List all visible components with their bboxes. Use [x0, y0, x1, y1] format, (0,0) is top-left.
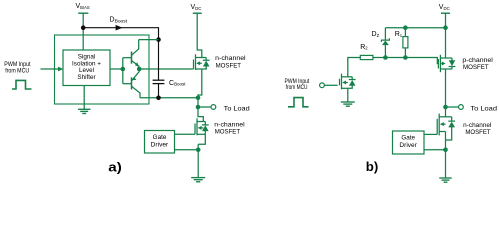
transistor Q1 NPN (top of totem pole) — [123, 40, 139, 67]
junction dot R1 bottom — [403, 55, 408, 60]
gate driver text (a) — [151, 134, 169, 148]
junction dot CBoost bottom (black) — [156, 96, 161, 101]
n-channel MOSFET M2 low-side (a) — [195, 118, 209, 144]
gate driver block (a) — [145, 131, 175, 154]
svg-text:DBoost: DBoost — [110, 17, 128, 24]
wire M5 source to ground (b) — [445, 132, 447, 179]
wire VDC down to high-side drain (a) — [197, 13, 202, 57]
junction dot bootstrap return (a) — [196, 96, 201, 101]
junction dot M2 source (a) — [196, 148, 201, 153]
ground symbol (b) bottom — [439, 178, 452, 182]
wire emitter node stubs — [138, 66, 140, 71]
wire gate driver to M5 gate (b) — [424, 133, 437, 135]
wire gate driver return (b) — [424, 149, 446, 151]
wire M2 source to ground (a) — [197, 144, 199, 177]
PWM pulse symbol (b) — [288, 98, 309, 107]
svg-text:R1: R1 — [395, 31, 403, 38]
ground symbol (a) signal box — [78, 109, 91, 113]
wire gate driver return (a) — [175, 149, 199, 151]
R2 label — [360, 44, 368, 51]
svg-text:MOSFET: MOSFET — [465, 129, 490, 136]
wire R2 to zener node — [373, 57, 386, 59]
wire PWM input to signal box (a) — [41, 68, 59, 70]
junction dot R1 top — [403, 25, 408, 30]
junction dot load node (a) — [196, 105, 201, 110]
wire VDC to M4 source — [445, 28, 447, 58]
svg-text:from MCU: from MCU — [286, 84, 308, 91]
wire gate node to M4 gate — [405, 58, 438, 64]
junction dot load node (b) — [443, 105, 448, 110]
ground symbol (a) bottom — [191, 178, 205, 182]
VDC label (b) — [439, 4, 450, 11]
wire top rail DZ to VDC (b) — [385, 27, 445, 29]
resistor R2 — [360, 55, 373, 59]
svg-text:MOSFET: MOSFET — [215, 129, 240, 136]
wire load node to low-side drain (a) — [198, 107, 203, 122]
DBoost label — [110, 17, 128, 24]
wire load node to M5 drain (b) — [445, 107, 447, 117]
wire high-side source to load node (a) — [198, 69, 202, 107]
wire VBIAS down to junction — [82, 13, 84, 28]
M5 labels — [463, 122, 491, 136]
wire M3 source to ground — [347, 88, 349, 102]
signal isolation block U1 — [63, 50, 110, 86]
ground symbol M3 source — [341, 102, 355, 106]
transistor Q2 PNP (bottom of totem pole) — [123, 72, 140, 98]
junction dot VBIAS node (black) — [81, 25, 86, 30]
svg-text:VBIAS: VBIAS — [76, 3, 90, 10]
n-channel MOSFET M5 low-side (b) — [437, 114, 455, 140]
signal isolation block text — [72, 53, 101, 81]
PWM input label (b) — [285, 78, 310, 91]
wire signal box to ground (a) — [83, 86, 85, 110]
svg-text:from MCU: from MCU — [5, 67, 29, 74]
M1 labels — [215, 55, 245, 69]
wire boost rail to NPN collector — [139, 39, 159, 41]
junction dot DZ bottom — [383, 55, 388, 60]
wire VDC down (b) — [445, 13, 447, 28]
To Load label (a) — [224, 106, 250, 113]
VDC label (a) — [191, 4, 202, 11]
junction dot boost rail (black) — [156, 37, 161, 42]
PWM input label (a) — [4, 61, 30, 74]
wire base bus vertical — [122, 58, 124, 84]
svg-text:Shifter: Shifter — [77, 74, 95, 81]
To Load label (b) — [470, 105, 497, 112]
input arrowhead into signal box (a) — [58, 67, 63, 72]
svg-text:n-channel: n-channel — [215, 55, 245, 62]
junction dot VDC rail (b) — [443, 25, 448, 30]
PWM terminal ring (b) — [320, 83, 325, 88]
CBoost label — [169, 80, 186, 87]
wire gate driver to M2 gate (a) — [175, 133, 196, 135]
wire PWM terminal to M3 gate — [324, 84, 338, 86]
wire M4 drain to load node (b) — [445, 69, 447, 107]
svg-text:MOSFET: MOSFET — [216, 62, 241, 69]
diode DBoost wire (black) — [83, 28, 158, 40]
node dot push-pull bases — [121, 67, 126, 72]
dashed-outline driver block box (a) — [55, 35, 150, 104]
label b) — [366, 159, 379, 174]
wire to load terminal (b) — [446, 106, 459, 108]
svg-text:MOSFET: MOSFET — [463, 64, 489, 71]
resistor R1 — [403, 37, 408, 48]
wire bootstrap return rail — [140, 97, 198, 99]
wire signal box output to bases — [110, 68, 123, 70]
wire VBIAS junction into signal box — [82, 28, 84, 50]
svg-text:To Load: To Load — [224, 106, 250, 113]
M4 labels — [462, 57, 492, 71]
n-channel MOSFET M1 high-side (a) — [194, 54, 210, 70]
capacitor CBoost (black) — [153, 40, 165, 98]
svg-text:R2: R2 — [360, 44, 368, 51]
wire M3 drain up to R2 — [348, 58, 361, 77]
PWM pulse symbol (a) — [12, 80, 32, 89]
VBIAS label — [76, 3, 90, 10]
p-channel MOSFET M4 high-side (b) — [438, 55, 455, 72]
wire R1 top lead — [404, 28, 406, 37]
gate driver block (b) — [393, 131, 425, 154]
svg-text:VDC: VDC — [439, 4, 450, 11]
svg-text:VDC: VDC — [191, 4, 202, 11]
svg-text:b): b) — [366, 159, 379, 174]
To Load terminal ring (a) — [211, 105, 216, 110]
wire R1 bottom lead — [404, 48, 406, 58]
svg-text:DZ: DZ — [372, 31, 380, 38]
svg-text:To Load: To Load — [470, 105, 497, 112]
svg-text:Gate: Gate — [153, 134, 167, 141]
n-channel MOSFET M3 input (b) — [340, 74, 356, 90]
gate driver text (b) — [399, 135, 417, 150]
svg-text:Driver: Driver — [151, 141, 169, 148]
svg-text:CBoost: CBoost — [169, 80, 186, 87]
VBIAS terminal bar — [78, 12, 88, 14]
junction dot M5 source (b) — [443, 148, 448, 153]
VDC terminal bar (b) — [441, 12, 450, 14]
svg-text:a): a) — [108, 160, 122, 175]
VDC terminal bar (a) — [193, 12, 202, 14]
wire zener node to R1 — [385, 57, 405, 59]
M2 labels — [214, 122, 244, 136]
wire to load terminal (a) — [198, 106, 211, 108]
diode DBoost arrowhead — [116, 25, 123, 31]
label a) — [108, 160, 122, 175]
To Load terminal ring (b) — [459, 105, 464, 110]
svg-text:Gate: Gate — [401, 135, 415, 142]
DZ label — [372, 31, 380, 38]
zener diode DZ — [381, 28, 389, 58]
node dot push-pull emitters — [137, 67, 142, 72]
svg-text:p-channel: p-channel — [462, 57, 492, 64]
svg-text:Driver: Driver — [399, 142, 417, 149]
wire gate drive rail to high-side gate — [139, 68, 193, 70]
R1 label — [395, 31, 403, 38]
